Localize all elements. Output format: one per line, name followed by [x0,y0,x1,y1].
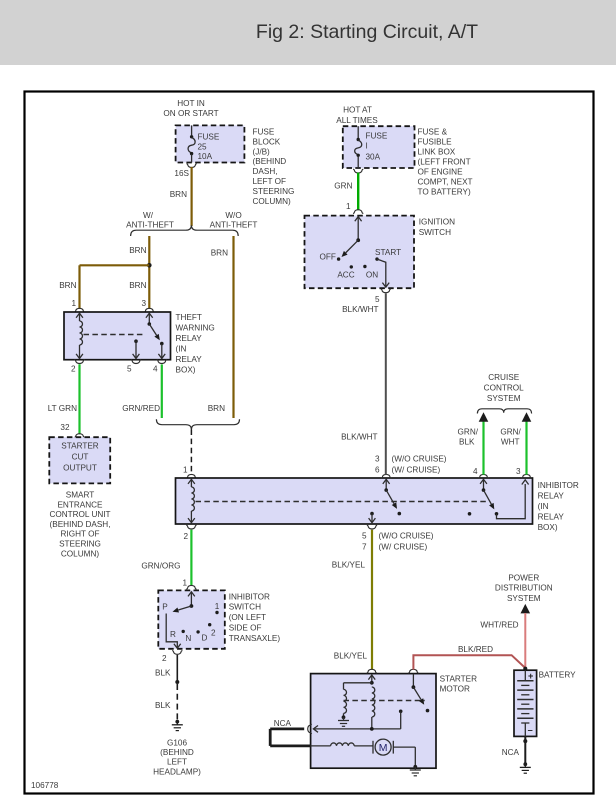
svg-text:M: M [379,742,388,754]
svg-text:SYSTEM: SYSTEM [507,594,541,603]
svg-text:(IN: (IN [176,345,187,354]
svg-text:HOT AT: HOT AT [343,106,372,115]
svg-text:GRN/ORG: GRN/ORG [141,562,180,571]
svg-text:BLK: BLK [155,701,171,710]
svg-text:BLK: BLK [155,669,171,678]
svg-text:(ON LEFT: (ON LEFT [229,613,266,622]
svg-text:BRN: BRN [59,281,76,290]
svg-text:N: N [185,634,191,643]
svg-text:BRN: BRN [211,249,228,258]
svg-text:BRN: BRN [129,246,146,255]
svg-text:P: P [162,603,168,612]
svg-text:NCA: NCA [502,748,520,757]
svg-text:BLK: BLK [459,438,475,447]
svg-text:BRN: BRN [208,404,225,413]
svg-text:COLUMN): COLUMN) [253,197,291,206]
svg-text:R: R [170,630,176,639]
svg-text:I: I [366,142,368,151]
svg-text:16S: 16S [174,169,189,178]
svg-text:FUSE: FUSE [198,133,220,142]
svg-text:BLOCK: BLOCK [253,137,281,146]
svg-text:POWER: POWER [508,574,539,583]
svg-text:STEERING: STEERING [59,540,101,549]
svg-text:1: 1 [215,602,220,611]
svg-text:GRN/RED: GRN/RED [122,404,160,413]
svg-text:(J/B): (J/B) [253,147,271,156]
svg-text:DASH,: DASH, [253,167,278,176]
svg-text:HEADLAMP): HEADLAMP) [153,767,201,776]
svg-text:5: 5 [127,365,132,374]
svg-text:STARTER: STARTER [440,675,478,684]
svg-text:SMART: SMART [66,491,95,500]
svg-text:LEFT OF: LEFT OF [253,177,287,186]
svg-text:FUSE &: FUSE & [418,128,448,137]
svg-text:3: 3 [141,299,146,308]
svg-text:OFF: OFF [320,253,336,262]
svg-text:CUT: CUT [72,453,89,462]
svg-text:2: 2 [162,654,167,663]
svg-text:BLK/WHT: BLK/WHT [342,305,378,314]
svg-text:LEFT: LEFT [167,758,187,767]
svg-text:WHT/RED: WHT/RED [480,621,518,630]
svg-text:(BEHIND DASH,: (BEHIND DASH, [50,520,111,529]
svg-text:Fig 2: Starting Circuit, A/T: Fig 2: Starting Circuit, A/T [256,21,478,43]
svg-text:THEFT: THEFT [176,313,202,322]
svg-text:BOX): BOX) [176,366,196,375]
svg-text:ALL TIMES: ALL TIMES [336,116,378,125]
svg-text:(BEHIND: (BEHIND [160,748,194,757]
svg-text:–: – [528,725,533,735]
svg-text:W/O: W/O [225,211,241,220]
svg-text:3: 3 [516,467,521,476]
svg-text:BRN: BRN [129,281,146,290]
svg-text:6: 6 [375,466,380,475]
svg-text:SWITCH: SWITCH [419,228,451,237]
svg-text:ON OR START: ON OR START [163,109,218,118]
svg-text:5: 5 [375,295,380,304]
svg-text:OF ENGINE: OF ENGINE [418,168,464,177]
svg-text:START: START [375,248,401,257]
svg-text:SWITCH: SWITCH [229,603,261,612]
svg-text:STARTER: STARTER [61,442,99,451]
svg-text:4: 4 [473,467,478,476]
svg-text:WARNING: WARNING [176,324,215,333]
svg-text:1: 1 [71,299,76,308]
svg-text:INHIBITOR: INHIBITOR [229,592,270,601]
svg-text:W/: W/ [143,211,154,220]
svg-text:ON: ON [366,270,378,279]
svg-text:STEERING: STEERING [253,187,295,196]
svg-text:ACC: ACC [337,270,354,279]
svg-text:3: 3 [375,455,380,464]
svg-text:BLK/YEL: BLK/YEL [332,561,366,570]
svg-text:(W/O CRUISE): (W/O CRUISE) [392,455,447,464]
svg-text:GRN: GRN [334,182,352,191]
svg-text:TO BATTERY): TO BATTERY) [418,188,471,197]
svg-text:LINK BOX: LINK BOX [418,148,456,157]
svg-text:FUSIBLE: FUSIBLE [418,138,453,147]
svg-text:4: 4 [153,365,158,374]
svg-text:HOT IN: HOT IN [177,99,205,108]
svg-text:+: + [528,671,533,681]
svg-text:SIDE OF: SIDE OF [229,624,262,633]
svg-text:RELAY: RELAY [538,513,565,522]
svg-text:(IN: (IN [538,502,549,511]
svg-text:MOTOR: MOTOR [440,685,470,694]
svg-text:(BEHIND: (BEHIND [253,157,287,166]
svg-text:LT GRN: LT GRN [48,404,77,413]
svg-text:BATTERY: BATTERY [539,671,577,680]
svg-text:GRN/: GRN/ [500,428,521,437]
svg-text:(W/O CRUISE): (W/O CRUISE) [379,532,434,541]
svg-text:RELAY: RELAY [538,492,565,501]
svg-text:COMPT, NEXT: COMPT, NEXT [418,178,473,187]
svg-text:(W/ CRUISE): (W/ CRUISE) [379,543,428,552]
svg-text:FUSE: FUSE [366,132,388,141]
svg-text:2: 2 [211,629,216,638]
svg-text:SYSTEM: SYSTEM [487,394,521,403]
svg-text:FUSE: FUSE [253,128,275,137]
svg-text:10A: 10A [198,152,213,161]
svg-text:BRN: BRN [170,190,187,199]
svg-text:IGNITION: IGNITION [419,218,455,227]
svg-text:25: 25 [198,142,208,151]
svg-text:CRUISE: CRUISE [488,373,519,382]
svg-text:BLK/YEL: BLK/YEL [334,652,368,661]
svg-text:(W/ CRUISE): (W/ CRUISE) [392,466,441,475]
svg-text:2: 2 [183,532,188,541]
svg-text:RIGHT OF: RIGHT OF [61,530,100,539]
svg-text:1: 1 [183,466,188,475]
svg-text:2: 2 [71,365,76,374]
svg-text:NCA: NCA [274,719,292,728]
svg-text:BOX): BOX) [538,523,558,532]
svg-text:OUTPUT: OUTPUT [63,464,97,473]
svg-text:D: D [202,633,208,642]
svg-text:GRN/: GRN/ [458,428,479,437]
svg-text:CONTROL UNIT: CONTROL UNIT [49,510,110,519]
svg-text:ENTRANCE: ENTRANCE [57,500,103,509]
svg-text:(LEFT FRONT: (LEFT FRONT [418,158,471,167]
svg-text:RELAY: RELAY [176,355,203,364]
svg-text:7: 7 [362,543,367,552]
svg-text:30A: 30A [366,152,381,161]
svg-text:DISTRIBUTION: DISTRIBUTION [495,584,553,593]
svg-text:32: 32 [60,423,70,432]
svg-text:INHIBITOR: INHIBITOR [538,481,579,490]
svg-text:G106: G106 [167,739,187,748]
svg-text:1: 1 [346,202,351,211]
svg-text:WHT: WHT [501,438,520,447]
svg-text:TRANSAXLE): TRANSAXLE) [229,634,281,643]
svg-text:ANTI-THEFT: ANTI-THEFT [210,221,258,230]
svg-text:BLK/RED: BLK/RED [458,645,493,654]
svg-text:ANTI-THEFT: ANTI-THEFT [126,221,174,230]
svg-text:1: 1 [182,579,187,588]
svg-text:CONTROL: CONTROL [484,383,524,392]
svg-text:COLUMN): COLUMN) [61,549,99,558]
svg-text:BLK/WHT: BLK/WHT [341,433,377,442]
svg-text:RELAY: RELAY [176,334,203,343]
svg-text:5: 5 [362,532,367,541]
svg-text:106778: 106778 [31,781,59,790]
